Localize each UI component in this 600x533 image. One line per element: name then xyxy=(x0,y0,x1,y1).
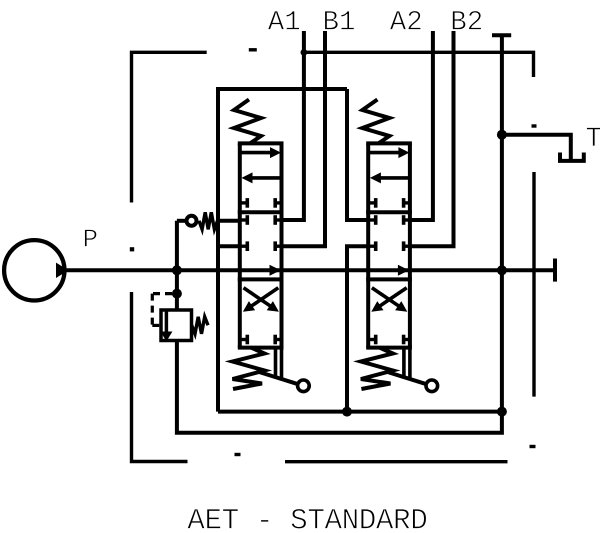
node bottom gallery / mid vertical xyxy=(342,407,352,417)
wire relief riser xyxy=(175,270,179,310)
valve V1 lever xyxy=(258,348,299,385)
relief valve flow arrow xyxy=(165,312,169,333)
valve V1 blocked ports row 1 xyxy=(240,198,282,208)
wire port A2 xyxy=(410,31,433,220)
relief pilot dashes xyxy=(152,294,172,326)
pump circle xyxy=(4,240,64,300)
node main line / check riser xyxy=(172,265,182,275)
wire left/top gallery xyxy=(218,89,347,412)
enclosure border right long dash xyxy=(532,172,535,397)
reservoir symbol T xyxy=(560,153,584,161)
wire relief outlet / tank return xyxy=(177,341,502,433)
valve V2 top spring xyxy=(362,100,389,144)
node bottom gallery / tank vertical xyxy=(497,407,507,417)
svg-text:A1: A1 xyxy=(268,7,301,38)
enclosure border bottom dot xyxy=(235,453,241,456)
pump flow triangle xyxy=(56,263,69,278)
valve V1 blocked ports row 3 xyxy=(240,241,282,251)
svg-text:A2: A2 xyxy=(390,7,423,38)
valve V2 blocked ports row 2 xyxy=(368,215,410,225)
node relief riser / pilot xyxy=(172,289,182,299)
valve V2 blocked ports row 4 xyxy=(368,335,410,345)
valve V2 lever xyxy=(386,348,427,385)
check valve spring xyxy=(199,212,218,229)
wire main P line xyxy=(64,268,555,272)
svg-text:B1: B1 xyxy=(323,7,356,38)
relief valve spring xyxy=(192,317,208,334)
valve V2 blocked ports row 1 xyxy=(368,198,410,208)
valve V1 lever knob xyxy=(298,380,310,392)
wire port A1 xyxy=(282,31,304,220)
wire mid vertical lower xyxy=(347,246,368,411)
wire mid vertical upper (supply valve2) xyxy=(347,89,368,220)
valve V1 bottom spring xyxy=(233,348,265,389)
svg-text:AET - STANDARD: AET - STANDARD xyxy=(187,505,427,533)
wire port B2 xyxy=(410,31,454,246)
wire port B1 xyxy=(282,31,326,246)
wire check to valve1 xyxy=(219,219,240,223)
valve V1 env1 arrow right xyxy=(241,151,272,155)
enclosure border left dot xyxy=(130,247,134,251)
check valve ball C1 xyxy=(187,216,197,226)
wire bottom gallery xyxy=(218,410,502,414)
wire valve1 row246 left xyxy=(218,244,240,248)
enclosure border bottom long dash xyxy=(285,460,508,463)
plug bar top of tank line xyxy=(492,33,511,37)
enclosure border left-bottom xyxy=(132,292,188,462)
valve V2 cross arrows xyxy=(372,288,399,306)
valve V1 spool outline xyxy=(238,143,284,347)
plug bar at carryover end xyxy=(553,259,557,282)
enclosure border top-right xyxy=(304,52,534,77)
enclosure border top-left xyxy=(132,52,207,202)
valve V1 open-center arrow xyxy=(270,265,281,276)
valve V1 blocked ports row 2 xyxy=(240,215,282,225)
valve V2 bottom spring xyxy=(361,348,393,389)
valve V1 top spring xyxy=(234,100,261,144)
node tank vertical / T branch xyxy=(497,130,507,140)
valve V1 env1 arrow left xyxy=(252,176,282,180)
svg-text:P: P xyxy=(83,224,99,254)
valve V2 lever knob xyxy=(426,380,438,392)
valve V2 open-center arrow xyxy=(398,265,409,276)
wire check line xyxy=(177,219,186,223)
valve V2 env1 arrow left xyxy=(380,176,410,180)
svg-text:T: T xyxy=(586,124,600,155)
node main line / tank vertical xyxy=(497,265,507,275)
valve V2 spool outline xyxy=(366,143,412,347)
enclosure border bottom-right dot xyxy=(530,445,536,448)
valve V2 blocked ports row 3 xyxy=(368,241,410,251)
wire tank vertical xyxy=(500,35,504,411)
valve V1 cross arrows xyxy=(244,288,271,306)
valve V1 blocked ports row 4 xyxy=(240,335,282,345)
enclosure border right dot xyxy=(532,124,537,127)
wire check riser xyxy=(175,221,179,270)
enclosure border top dash xyxy=(249,48,257,51)
wire T branch xyxy=(502,135,571,161)
node A1 / border xyxy=(301,49,308,56)
valve V2 env1 arrow right xyxy=(369,151,400,155)
relief valve body xyxy=(161,310,192,341)
